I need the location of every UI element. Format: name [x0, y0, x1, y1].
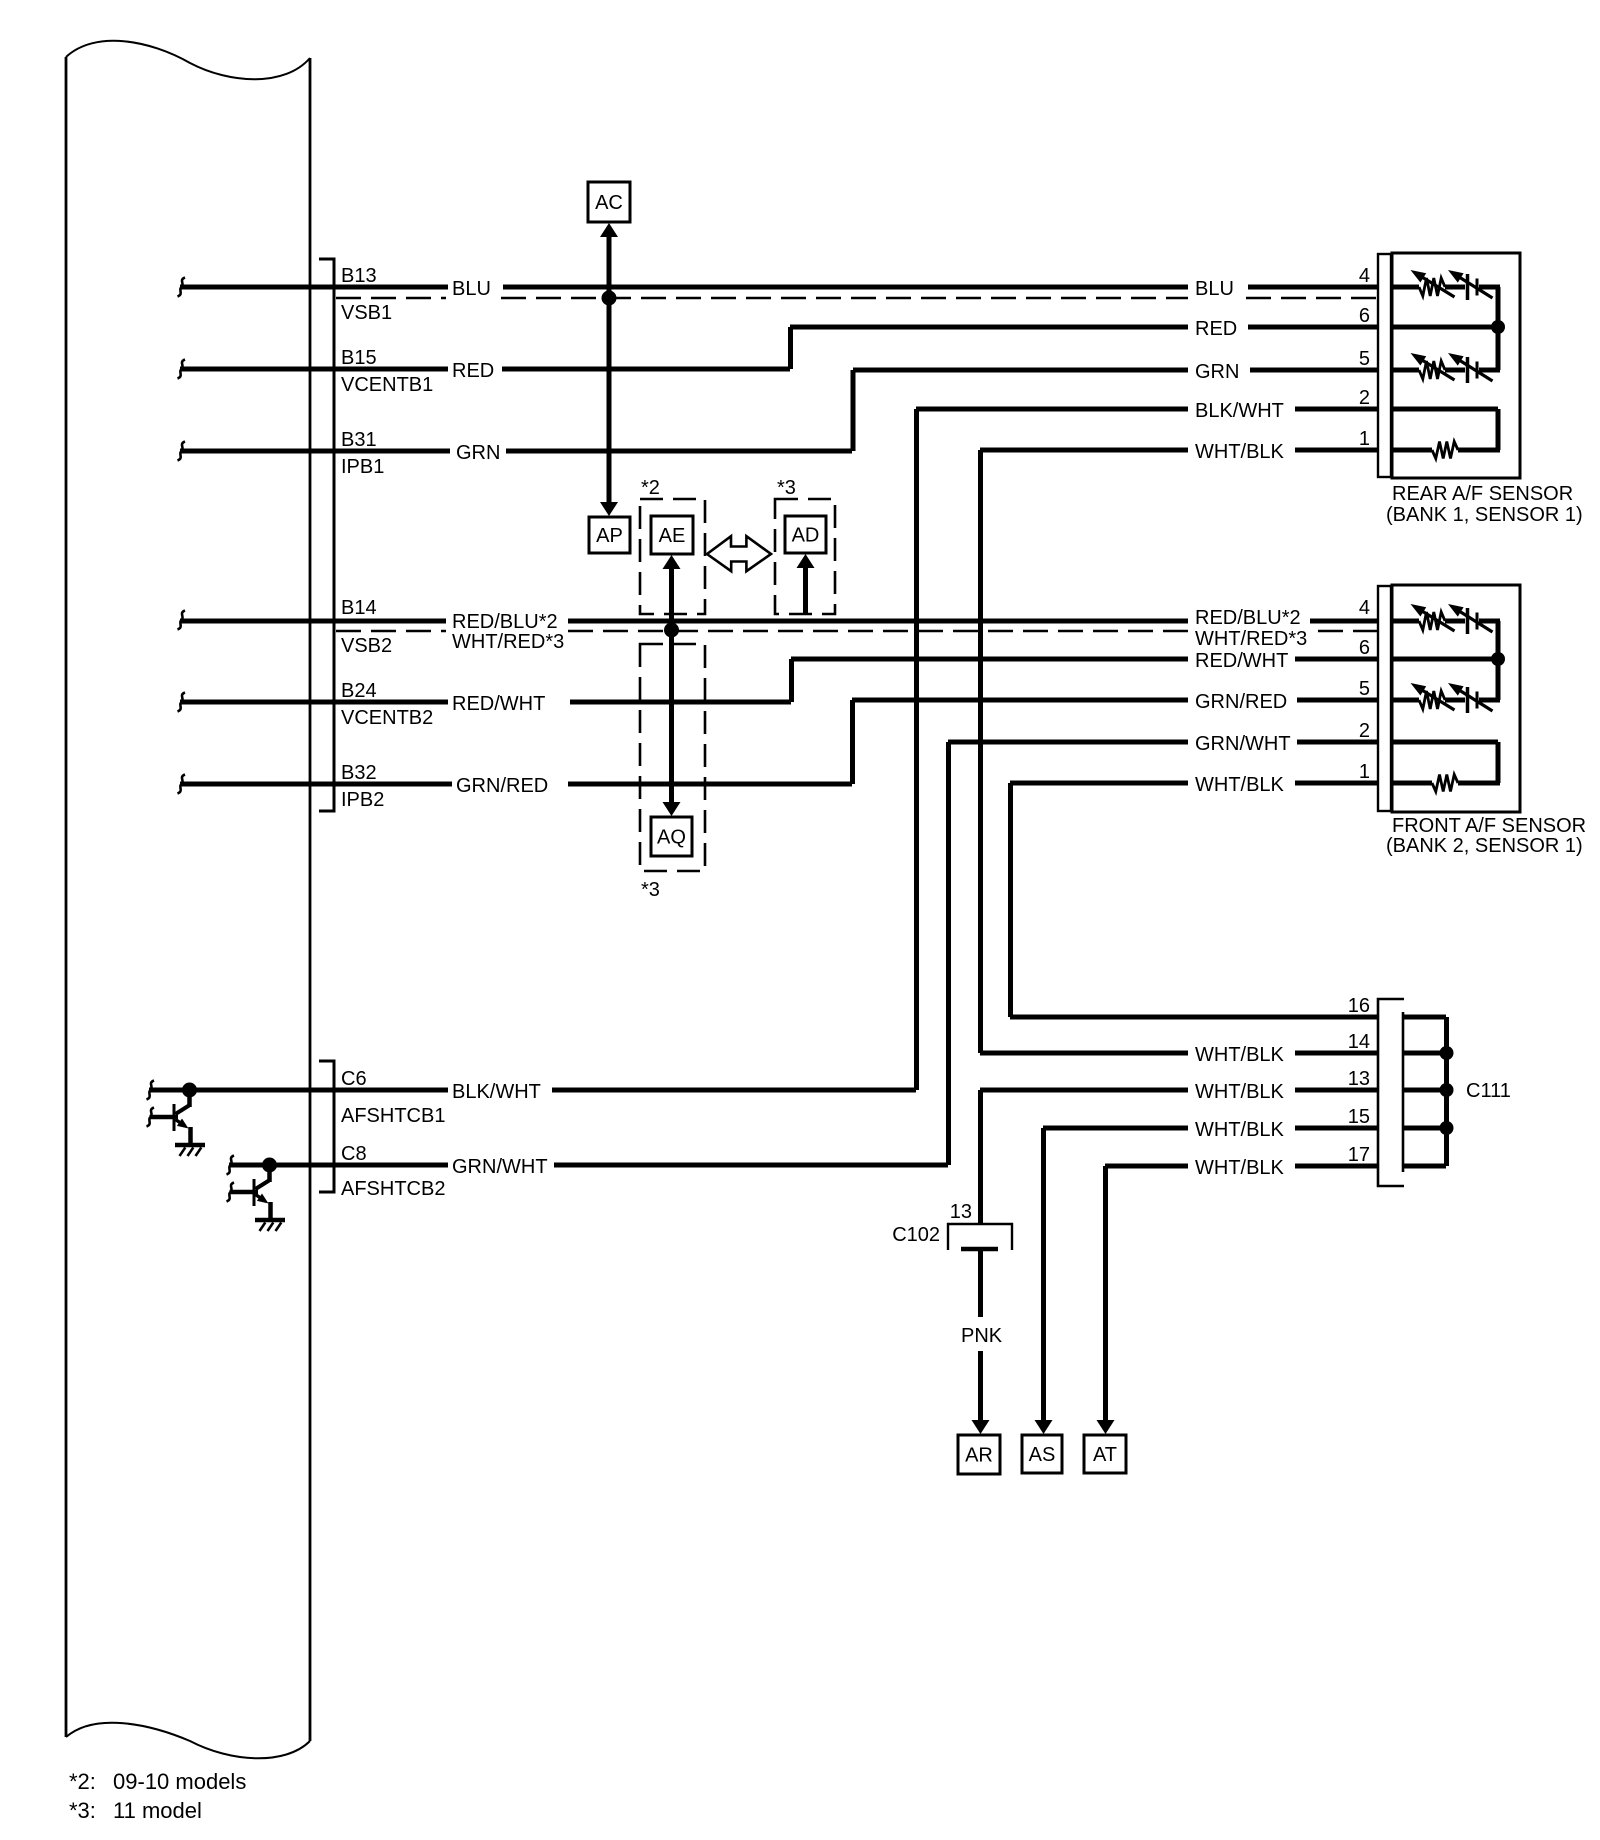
sensor connector strip [1378, 254, 1391, 477]
wire-break squiggle B32 [178, 775, 186, 794]
svg-text:RED/BLU*2: RED/BLU*2 [452, 611, 558, 633]
svg-text:C8: C8 [341, 1143, 367, 1165]
transistor base bar [173, 1104, 176, 1131]
dashed option box *3 around AQ [640, 644, 705, 871]
transistor Q2 (AF heater driver bank2) [262, 1158, 277, 1173]
sensor cell element (pin 4) [1392, 270, 1500, 300]
svg-text:WHT/BLK: WHT/BLK [1195, 441, 1285, 463]
svg-text:B24: B24 [341, 680, 377, 702]
svg-text:4: 4 [1359, 597, 1370, 619]
ground [255, 1218, 285, 1223]
svg-text:IPB2: IPB2 [341, 789, 384, 811]
svg-text:PNK: PNK [961, 1325, 1003, 1347]
wire WHT/BLK front sensor pin 1 to C111 pin 16 [1010, 783, 1378, 1017]
ECM/PCM module strip (torn paper outline) [66, 41, 310, 1759]
svg-text:RED: RED [452, 360, 494, 382]
wire AE to AQ [669, 569, 674, 802]
svg-text:RED: RED [1195, 318, 1237, 340]
connector C102 pin 13 [948, 1224, 1012, 1250]
svg-text:REAR A/F SENSOR: REAR A/F SENSOR [1392, 483, 1573, 505]
wire-break squiggle B24 [178, 693, 186, 712]
svg-text:2: 2 [1359, 387, 1370, 409]
wire arrow into AD [803, 568, 808, 614]
transistor base lead [230, 1190, 259, 1195]
sensor internal junction [1496, 621, 1501, 700]
svg-text:B15: B15 [341, 347, 377, 369]
sensor heater resistor (pins 2-1) [1392, 742, 1500, 792]
wire B14 VSB2 RED/BLU (ECM to front sensor pin 4) [180, 619, 1378, 624]
svg-text:*2: 09-10 models: *2: 09-10 models [69, 1769, 246, 1794]
svg-text:GRN: GRN [1195, 361, 1239, 383]
page reference box AR [958, 1435, 1000, 1474]
svg-text:(BANK 2, SENSOR 1): (BANK 2, SENSOR 1) [1386, 835, 1583, 857]
svg-text:C6: C6 [341, 1068, 367, 1090]
svg-text:1: 1 [1359, 428, 1370, 450]
svg-text:WHT/RED*3: WHT/RED*3 [452, 631, 564, 653]
svg-text:1: 1 [1359, 761, 1370, 783]
svg-text:AD: AD [792, 525, 820, 547]
svg-text:B32: B32 [341, 762, 377, 784]
svg-text:VCENTB2: VCENTB2 [341, 707, 433, 729]
svg-text:*2: *2 [641, 477, 660, 499]
wire-break squiggle on base [147, 1108, 155, 1127]
svg-text:AFSHTCB2: AFSHTCB2 [341, 1178, 445, 1200]
sensor internal junction [1496, 287, 1501, 370]
svg-text:6: 6 [1359, 637, 1370, 659]
wire WHT/BLK C111 pin 15 to AS [1043, 1128, 1378, 1421]
svg-text:GRN/RED: GRN/RED [1195, 691, 1287, 713]
svg-text:17: 17 [1348, 1144, 1370, 1166]
svg-text:WHT/BLK: WHT/BLK [1195, 1119, 1285, 1141]
wire-break squiggle B31 [178, 442, 186, 461]
page reference box AC [588, 182, 630, 222]
dashed alternate wire under B14 row [336, 630, 1378, 633]
svg-text:B13: B13 [341, 265, 377, 287]
ECM connector bracket (B13/B15/B31/B14/B24/B32) [319, 259, 334, 811]
page reference box AD [785, 516, 826, 553]
svg-text:WHT/BLK: WHT/BLK [1195, 1081, 1285, 1103]
emitter lead [188, 1127, 193, 1145]
svg-text:WHT/RED*3: WHT/RED*3 [1195, 628, 1307, 650]
sensor wire pin 6 [1392, 325, 1498, 330]
transistor base bar [253, 1179, 256, 1206]
svg-text:WHT/BLK: WHT/BLK [1195, 774, 1285, 796]
dashed alternate wire under BLU row [336, 297, 1378, 300]
wire-break squiggle B13 [178, 278, 186, 297]
svg-text:13: 13 [1348, 1068, 1370, 1090]
transistor Q1 (AF heater driver bank1) [182, 1083, 197, 1098]
wire GRN/WHT front sensor pin 2 to ECM C8 [229, 742, 1378, 1165]
transistor collector lead [267, 1165, 272, 1182]
svg-text:RED/WHT: RED/WHT [452, 693, 545, 715]
sensor body box [1392, 585, 1520, 812]
svg-text:WHT/BLK: WHT/BLK [1195, 1044, 1285, 1066]
svg-text:B14: B14 [341, 597, 377, 619]
svg-text:WHT/BLK: WHT/BLK [1195, 1157, 1285, 1179]
svg-text:14: 14 [1348, 1031, 1370, 1053]
svg-text:*3: 11 model: *3: 11 model [69, 1798, 202, 1823]
pin labels rear sensor [1359, 265, 1370, 450]
svg-text:4: 4 [1359, 265, 1370, 287]
svg-text:VSB1: VSB1 [341, 302, 392, 324]
wire-break squiggle C6 [147, 1081, 155, 1100]
svg-text:BLK/WHT: BLK/WHT [1195, 400, 1284, 422]
svg-text:AQ: AQ [657, 827, 686, 849]
C111 internal common bus [1404, 1017, 1447, 1166]
svg-text:GRN/RED: GRN/RED [456, 775, 548, 797]
connector C111 [1378, 999, 1404, 1186]
svg-text:6: 6 [1359, 305, 1370, 327]
page reference box AE [651, 516, 693, 554]
wire PNK from C102 to AR [978, 1251, 983, 1317]
svg-text:IPB1: IPB1 [341, 456, 384, 478]
wire to page reference AC / AP [607, 236, 612, 503]
junction dot on dashed BLU row [602, 291, 617, 306]
svg-text:BLU: BLU [1195, 278, 1234, 300]
dashed option box *2 around AE [640, 499, 705, 614]
sensor body box [1392, 253, 1520, 478]
dashed option box *3 around AD [775, 499, 835, 614]
svg-text:(BANK 1, SENSOR 1): (BANK 1, SENSOR 1) [1386, 504, 1583, 526]
svg-text:GRN/WHT: GRN/WHT [452, 1156, 548, 1178]
wire BLK/WHT rear sensor pin 2 to ECM C6 [149, 409, 1378, 1090]
page reference box AP [589, 517, 630, 553]
svg-text:AT: AT [1093, 1444, 1117, 1466]
wire B31 IPB1 GRN (ECM to rear sensor pin 5) [180, 370, 1378, 451]
wire B13 VSB1 BLU (ECM to rear sensor pin 4) [180, 285, 1378, 290]
junction dots on C111 bus [1440, 1046, 1454, 1060]
svg-text:5: 5 [1359, 348, 1370, 370]
transistor emitter with arrow [176, 1120, 183, 1125]
svg-text:2: 2 [1359, 720, 1370, 742]
svg-text:AC: AC [595, 192, 623, 214]
page reference box AT [1084, 1435, 1126, 1473]
svg-text:VCENTB1: VCENTB1 [341, 374, 433, 396]
svg-text:*3: *3 [777, 477, 796, 499]
sensor wire pin 6 [1392, 657, 1498, 662]
sensor connector strip [1378, 586, 1391, 811]
wire-break squiggle B15 [178, 360, 186, 379]
wire B15 VCENTB1 RED (ECM to rear sensor pin 6) [180, 327, 1378, 369]
sensor cell element (pin 5) [1392, 353, 1500, 383]
svg-text:AFSHTCB1: AFSHTCB1 [341, 1105, 445, 1127]
transistor base lead [150, 1115, 179, 1120]
svg-text:AP: AP [596, 525, 623, 547]
page reference box AQ [651, 817, 692, 856]
svg-text:GRN: GRN [456, 442, 500, 464]
pin labels C111 [1348, 995, 1370, 1166]
sensor cell element (pin 4) [1392, 604, 1500, 634]
svg-text:AE: AE [659, 525, 686, 547]
svg-text:C111: C111 [1466, 1080, 1511, 1102]
sensor cell element (pin 5) [1392, 683, 1500, 713]
wire B32 IPB2 GRN/RED (ECM to front sensor pin 5) [180, 700, 1378, 784]
svg-text:16: 16 [1348, 995, 1370, 1017]
svg-text:GRN/WHT: GRN/WHT [1195, 733, 1291, 755]
wire-break squiggle on base [227, 1183, 235, 1202]
svg-text:VSB2: VSB2 [341, 635, 392, 657]
wire WHT/BLK C111 pin 17 to AT [1105, 1166, 1378, 1421]
wire WHT/BLK rear sensor pin 1 to C111 pin 14 [980, 450, 1378, 1053]
svg-text:RED/BLU*2: RED/BLU*2 [1195, 607, 1301, 629]
ground [175, 1143, 205, 1148]
wire-break squiggle B14 [178, 611, 186, 630]
bidirectional swap arrow between AE and AD [707, 536, 771, 571]
svg-text:B31: B31 [341, 429, 377, 451]
pin labels front sensor [1359, 597, 1370, 783]
svg-text:FRONT A/F SENSOR: FRONT A/F SENSOR [1392, 815, 1586, 837]
page reference box AS [1022, 1435, 1062, 1473]
transistor emitter with arrow [256, 1195, 263, 1200]
svg-text:13: 13 [950, 1201, 972, 1223]
svg-text:BLU: BLU [452, 278, 491, 300]
svg-text:AR: AR [965, 1445, 993, 1467]
svg-text:RED/WHT: RED/WHT [1195, 650, 1288, 672]
svg-text:*3: *3 [641, 879, 660, 901]
svg-text:BLK/WHT: BLK/WHT [452, 1081, 541, 1103]
wire WHT/BLK C111 pin 13 to C102 and AR [980, 1090, 1378, 1224]
emitter lead [268, 1202, 273, 1220]
transistor collector lead [187, 1090, 192, 1107]
wire-break squiggle C8 [227, 1156, 235, 1175]
svg-text:AS: AS [1029, 1444, 1056, 1466]
svg-text:5: 5 [1359, 678, 1370, 700]
junction dot on dashed B14 row [664, 623, 679, 638]
wire B24 VCENTB2 RED/WHT (ECM to front sensor pin 6) [180, 659, 1378, 702]
ECM connector bracket (C6/C8) [319, 1061, 334, 1192]
svg-text:C102: C102 [892, 1224, 940, 1246]
sensor heater resistor (pins 2-1) [1392, 409, 1500, 459]
svg-text:15: 15 [1348, 1106, 1370, 1128]
